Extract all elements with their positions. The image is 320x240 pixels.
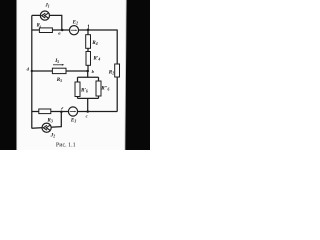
- svg-text:Рис. 1.1: Рис. 1.1: [56, 143, 76, 149]
- svg-text:c: c: [86, 113, 88, 118]
- svg-text:R1: R1: [37, 24, 42, 29]
